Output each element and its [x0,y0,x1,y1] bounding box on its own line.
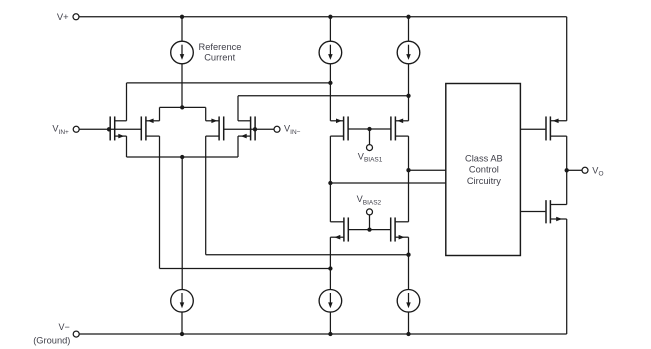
svg-text:Class AB: Class AB [465,153,503,163]
svg-text:VBIAS1: VBIAS1 [358,151,383,163]
transistor Q1 input pair left outer [110,116,126,140]
wire Q2 source drop [159,136,161,268]
junction left column / box input [328,181,332,185]
wire Q6 drain down to Q8 drain, right cascode column [408,136,410,222]
wire Q3 source bus to I6 column [206,254,409,256]
wire Q9 drain to output node [566,136,568,170]
wire right column node to Class AB box input [409,169,446,171]
wire Q4 drain riser [237,96,239,121]
terminal V+ [73,14,79,20]
wire Q4 drain bus to node at I3 column [238,95,409,97]
current source I4 tail [171,290,194,313]
svg-text:V−: V− [59,322,70,332]
wire VBIAS1 gate bus [348,128,391,130]
junction V+ rail / I1 [180,15,184,19]
wire VIN+ to gates of Q1 Q2 [79,128,141,130]
junction V+ rail / I3 [406,15,410,19]
wire tail down to current source I4 [181,157,183,290]
wire Q2 drain riser [159,107,161,120]
svg-text:VIN+: VIN+ [52,124,69,136]
current source I6 [397,290,420,313]
junction Q3 source bus / right column [406,253,410,257]
wire I5 to bottom rail [329,312,331,334]
current source I1 reference [171,41,194,64]
junction bottom rail / I4 [180,332,184,336]
wire Q3 drain riser [205,107,207,120]
wire Q10 drain to output node [566,170,568,204]
svg-text:VIN−: VIN− [284,124,301,136]
svg-text:V+: V+ [57,11,69,22]
current source I5 [319,290,342,313]
wire I3 output down to Q6 source [408,64,410,121]
terminal VBIAS2 [367,209,373,215]
terminal VO [582,167,588,173]
transistor Q8 VBIAS2 right cascode [391,217,409,241]
wire V+ top rail [79,16,567,18]
block Class AB Control Circuitry [446,84,521,256]
transistor Q2 input pair left inner [141,116,159,140]
wire VBIAS1 terminal stub [369,129,371,145]
wire I1 output to diff-pair top node [181,64,183,108]
wire Q2 source bus to I5 column [160,268,331,270]
wire Q8 source down to current source I6 [408,237,410,289]
svg-text:(Ground): (Ground) [33,335,70,345]
junction VIN+ at Q1 gate [107,127,111,131]
svg-text:VO: VO [592,165,603,177]
transistor Q3 input pair right inner [206,116,224,140]
wire left column node to Class AB box input [330,182,445,184]
junction VBIAS2 gates [367,227,371,231]
transistor Q9 output PMOS [546,116,567,140]
transistor Q10 output NMOS [546,200,567,223]
current source I2 [319,41,342,64]
wire top rail right drop to Q9 source [566,17,568,121]
wire VBIAS2 terminal stub [369,215,371,230]
junction V+ rail / I2 [328,15,332,19]
transistor Q7 VBIAS2 left cascode [330,217,348,241]
wire Q1 drain riser [126,83,128,121]
junction output node [565,168,569,172]
svg-text:Control: Control [469,165,499,175]
transistor Q5 VBIAS1 left cascode [330,116,348,140]
junction Q2 source bus / left column [328,266,332,270]
junction bottom rail / I6 [406,332,410,336]
wire tail node horizontal [127,156,239,158]
terminal V- ground [73,331,79,337]
wire Q5 drain down to Q7 drain, left cascode column [329,136,331,222]
wire I2 output down to Q5 source [329,64,331,121]
wire Q3 source drop [205,136,207,255]
wire rail stub to current source I2 [329,17,331,41]
junction VBIAS1 gates [367,127,371,131]
wire Q1 drain bus to node at I2 column [127,82,331,84]
wire VBIAS2 gate bus [348,229,390,231]
wire Class AB box output to Q9 gate [520,128,545,130]
svg-text:Reference: Reference [199,42,242,52]
junction bottom rail / I5 [328,332,332,336]
wire output node to VO terminal [567,169,582,171]
terminal VBIAS1 [367,145,373,151]
wire Class AB box output to Q10 gate [520,211,545,213]
junction diff-pair top node [180,105,184,109]
svg-text:Current: Current [204,52,235,62]
wire VIN- to gates of Q3 Q4 [224,128,274,130]
wire I4 to bottom rail [181,312,183,334]
svg-text:Circuitry: Circuitry [467,176,501,186]
junction Q1 drain bus / I2 column [328,81,332,85]
wire Q4 source drop to tail [237,136,239,157]
junction VIN- at Q4 gate [253,127,257,131]
wire diff-pair top node horizontal [160,106,206,108]
wire Q1 source drop to tail [126,136,128,157]
current source I3 [397,41,420,64]
junction Q4 drain bus / I3 column [406,94,410,98]
wire V- bottom rail [79,333,566,335]
wire Q10 source drop to bottom rail [566,219,568,334]
wire I6 to bottom rail [408,312,410,334]
transistor Q4 input pair right outer [238,116,255,140]
terminal VIN- [274,126,280,132]
wire rail stub to current source I3 [408,17,410,41]
terminal VIN+ [73,126,79,132]
wire Q7 source down to current source I5 [329,237,331,289]
wire rail stub to reference current source I1 [181,17,183,41]
svg-text:VBIAS2: VBIAS2 [357,194,382,206]
junction right column / box input [406,168,410,172]
junction tail node [180,155,184,159]
transistor Q6 VBIAS1 right cascode [391,116,409,140]
